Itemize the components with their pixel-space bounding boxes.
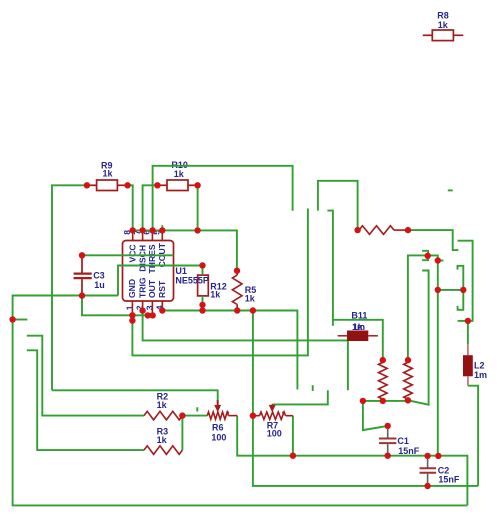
trimmer R7 [255, 412, 293, 419]
resistor R8 [423, 30, 464, 41]
wire pin2 TRIG down and right [143, 311, 348, 391]
wire bracket [458, 266, 464, 310]
wire long right vertical [408, 255, 438, 455]
inductor L2 [467, 344, 469, 355]
wire GND net horizontal and bottom rail [13, 296, 468, 506]
wire R7 right down [292, 416, 294, 456]
wire R10 top long [153, 166, 293, 231]
trimmer R7 wiper arrow [271, 404, 273, 406]
wire R9 left to vertical [52, 185, 87, 390]
wire R5 bottom vertical long [253, 311, 478, 486]
resistor R10 [157, 180, 197, 191]
wire R3 right up to R2 [181, 416, 183, 451]
wire B1 net vertical [327, 211, 333, 326]
wire R7 wiper [272, 390, 328, 404]
svg-text:100: 100 [211, 432, 226, 442]
wire zigzag bottoms [363, 401, 408, 430]
svg-text:DISCH: DISCH [137, 245, 147, 272]
svg-text:1k: 1k [438, 20, 449, 30]
svg-text:1k: 1k [245, 293, 256, 303]
svg-text:R6: R6 [212, 423, 224, 433]
wire R9 right to pin8 [128, 185, 133, 230]
wire top pin bus [133, 230, 237, 270]
capacitor C2 [427, 456, 429, 486]
svg-text:1u: 1u [94, 280, 105, 290]
resistor vertical right unlabeled [404, 360, 413, 400]
wire hook long vertical with diagonal [408, 271, 429, 405]
svg-text:C3: C3 [93, 270, 105, 280]
wire R12 top lead [202, 266, 204, 276]
wire R12 bottom lead [202, 296, 204, 305]
wire L2 top green [467, 321, 469, 344]
svg-text:OUT: OUT [147, 279, 157, 298]
wire from mid zigzag right [408, 230, 458, 250]
svg-text:TRIG: TRIG [137, 277, 147, 298]
resistor vertical left unlabeled [379, 360, 388, 401]
svg-text:1k: 1k [103, 169, 114, 179]
wire L2 top tap [458, 320, 468, 322]
wire pin4 row right [162, 311, 297, 390]
svg-text:VCC: VCC [127, 244, 137, 262]
resistor R3 [144, 446, 182, 455]
svg-text:U1: U1 [175, 266, 187, 276]
resistor R5 [232, 271, 242, 311]
wire R12 bottom link [202, 305, 204, 311]
inductor B1 [338, 335, 378, 337]
wire C3 bottom down [82, 296, 153, 316]
svg-text:1m: 1m [474, 370, 487, 380]
wire R10 left to pin7 [143, 185, 158, 230]
svg-text:NE555P: NE555P [175, 276, 209, 286]
wire pin5 stub [161, 225, 163, 230]
wire L2 bottom to C2 net [468, 386, 478, 486]
wire A from C3 top across IC [82, 254, 174, 256]
wire R7 left lead [253, 415, 256, 417]
wire hook pair at node [422, 251, 428, 260]
svg-text:RST: RST [157, 280, 167, 298]
svg-text:GND: GND [127, 279, 137, 298]
capacitor C1 [387, 426, 389, 456]
wire mid zigzag left up-over [318, 181, 358, 230]
svg-text:L2: L2 [474, 361, 485, 371]
trimmer R6 [207, 412, 237, 419]
wire stub left [13, 319, 28, 321]
svg-text:100: 100 [267, 428, 282, 438]
wire R10 right to bus [197, 185, 199, 230]
wire B to R12 top [118, 266, 203, 296]
svg-text:15nF: 15nF [438, 474, 460, 484]
wire bracket cross [438, 289, 464, 291]
op-amp U1 IC body NE555 [123, 241, 174, 302]
wire R6 wiper horizontal [52, 390, 218, 403]
trimmer R6 wiper arrow [217, 400, 219, 407]
pin stubs top of IC [133, 230, 163, 240]
wire dash right of node [438, 260, 444, 262]
wire R2 right to R6 [182, 415, 207, 417]
svg-text:1k: 1k [353, 322, 364, 332]
wire R3 left hook [27, 350, 144, 450]
capacitor C3 [74, 255, 92, 295]
svg-text:C1: C1 [397, 436, 409, 446]
resistor R9 [87, 180, 128, 191]
wire pin1 down and right [132, 209, 308, 356]
wire R6 right down to C2 top rail [237, 416, 467, 506]
wire dash top right [448, 189, 453, 191]
svg-text:R8: R8 [437, 10, 449, 20]
wire tick above R6 [196, 407, 198, 411]
svg-text:1k: 1k [157, 400, 168, 410]
resistor mid horizontal unlabeled [358, 226, 408, 235]
wire R2 left hook [27, 336, 144, 416]
wire right upper corner [458, 241, 473, 321]
svg-text:1k: 1k [157, 435, 168, 445]
svg-text:1k: 1k [210, 289, 221, 299]
resistor R2 [144, 411, 182, 420]
pin stubs bottom of IC [132, 301, 162, 315]
svg-text:1k: 1k [174, 169, 185, 179]
svg-text:15nF: 15nF [398, 446, 420, 456]
svg-text:THRES: THRES [147, 244, 157, 273]
resistor R12 box [198, 275, 209, 296]
wire B1 top to right [333, 320, 383, 360]
wire dangler mid [312, 385, 314, 391]
